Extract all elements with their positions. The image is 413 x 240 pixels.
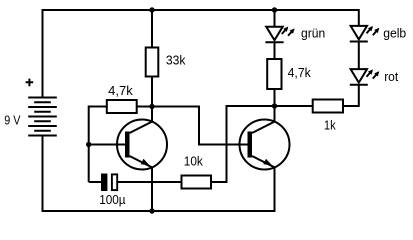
- svg-text:10k: 10k: [184, 154, 204, 168]
- node junction dot top rail / grün LED: [272, 7, 277, 12]
- svg-text:grün: grün: [301, 27, 325, 41]
- LED D2 gelb: [350, 9, 380, 69]
- node junction dot top rail / 33k: [149, 7, 154, 12]
- LED D3 rot: [343, 69, 379, 106]
- resistor R2 4,7k horizontal left: [89, 100, 152, 182]
- wire Q1 base: [89, 144, 125, 146]
- capacitor C1 100µ electrolytic: [89, 174, 182, 192]
- battery plus sign: [26, 79, 34, 87]
- svg-text:100µ: 100µ: [99, 193, 125, 207]
- svg-text:rot: rot: [384, 70, 398, 84]
- svg-text:4,7k: 4,7k: [288, 66, 312, 80]
- svg-text:9 V: 9 V: [4, 114, 21, 128]
- node B junction dot (Q1 collector): [149, 104, 154, 109]
- node junction dot Q1 base: [86, 142, 91, 147]
- transistor Q2 npn: [240, 106, 290, 211]
- svg-text:4,7k: 4,7k: [108, 84, 133, 98]
- wire Q1 collector to Q2 base: [152, 107, 248, 145]
- resistor R3 10k horizontal: [182, 176, 212, 189]
- LED D1 grün: [265, 10, 294, 59]
- wire top rail (+9V): [43, 10, 359, 98]
- transistor Q1 npn: [117, 107, 167, 212]
- wire bottom rail: [43, 136, 276, 212]
- battery BT1 9V plates: [28, 98, 57, 136]
- wire node C to 1k: [275, 105, 313, 107]
- resistor R4 4,7k vertical right: [267, 59, 281, 106]
- wire Q2 collector node to 10k: [211, 106, 275, 182]
- svg-text:gelb: gelb: [383, 27, 406, 41]
- node junction dot bottom rail / Q1 emitter: [149, 208, 154, 213]
- resistor R5 1k horizontal: [313, 100, 359, 113]
- svg-text:33k: 33k: [166, 54, 186, 68]
- svg-text:1k: 1k: [324, 118, 336, 132]
- resistor R1 33k vertical: [146, 10, 159, 107]
- node C junction dot (Q2 collector): [272, 103, 277, 108]
